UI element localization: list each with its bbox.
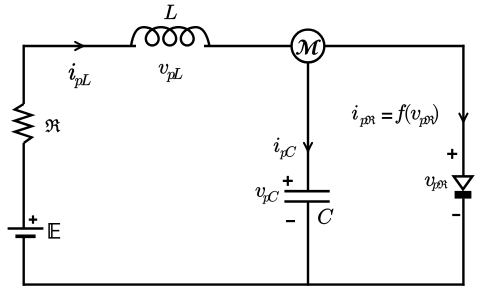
label - below diode	[452, 214, 460, 216]
label i_pR = f(v_pR)	[352, 105, 375, 126]
label L	[164, 5, 176, 19]
label i_pL	[69, 63, 91, 88]
wire left vertical upper	[23, 45, 25, 104]
label f(v_pR)	[396, 104, 438, 126]
diode D1 cathode bar	[455, 191, 472, 199]
arrow i_pL current direction	[75, 42, 84, 50]
wire meter down to capacitor	[307, 62, 309, 191]
meter M1 circle	[292, 30, 325, 63]
label C	[318, 209, 333, 224]
diode D1 triangle	[454, 176, 473, 189]
wire capacitor down to bottom	[307, 202, 309, 286]
label v_pL	[159, 64, 182, 82]
resistor R1 zigzag	[15, 104, 32, 143]
meter script M glyph	[296, 40, 321, 55]
label double-struck E source voltage	[49, 223, 60, 238]
wire right vertical upper	[462, 45, 464, 178]
inductor L1 coil	[131, 27, 210, 46]
equals sign	[382, 114, 392, 118]
wire left vertical middle	[23, 143, 25, 229]
wire inductor to meter	[204, 45, 291, 47]
wire top left	[23, 45, 137, 47]
label v_pR diode voltage	[425, 177, 447, 191]
label i_pC	[274, 138, 296, 159]
battery E1 long plate	[8, 227, 44, 230]
label + above diode	[447, 149, 457, 159]
label fraktur R resistance	[46, 119, 60, 132]
label - below capacitor	[286, 220, 295, 222]
label + above capacitor	[283, 176, 293, 186]
wire right vertical lower	[462, 199, 464, 286]
arrow i_pC current direction	[304, 143, 312, 152]
wire left vertical lower	[23, 236, 25, 285]
wire meter to top right corner	[325, 45, 465, 47]
battery E1 short plate	[15, 235, 35, 239]
capacitor C1 bottom plate	[284, 200, 329, 203]
battery + sign	[29, 215, 37, 223]
capacitor C1 top plate	[284, 190, 329, 193]
arrow i_pR current direction	[459, 114, 467, 123]
wire bottom	[23, 283, 465, 285]
label v_pC	[256, 187, 279, 204]
